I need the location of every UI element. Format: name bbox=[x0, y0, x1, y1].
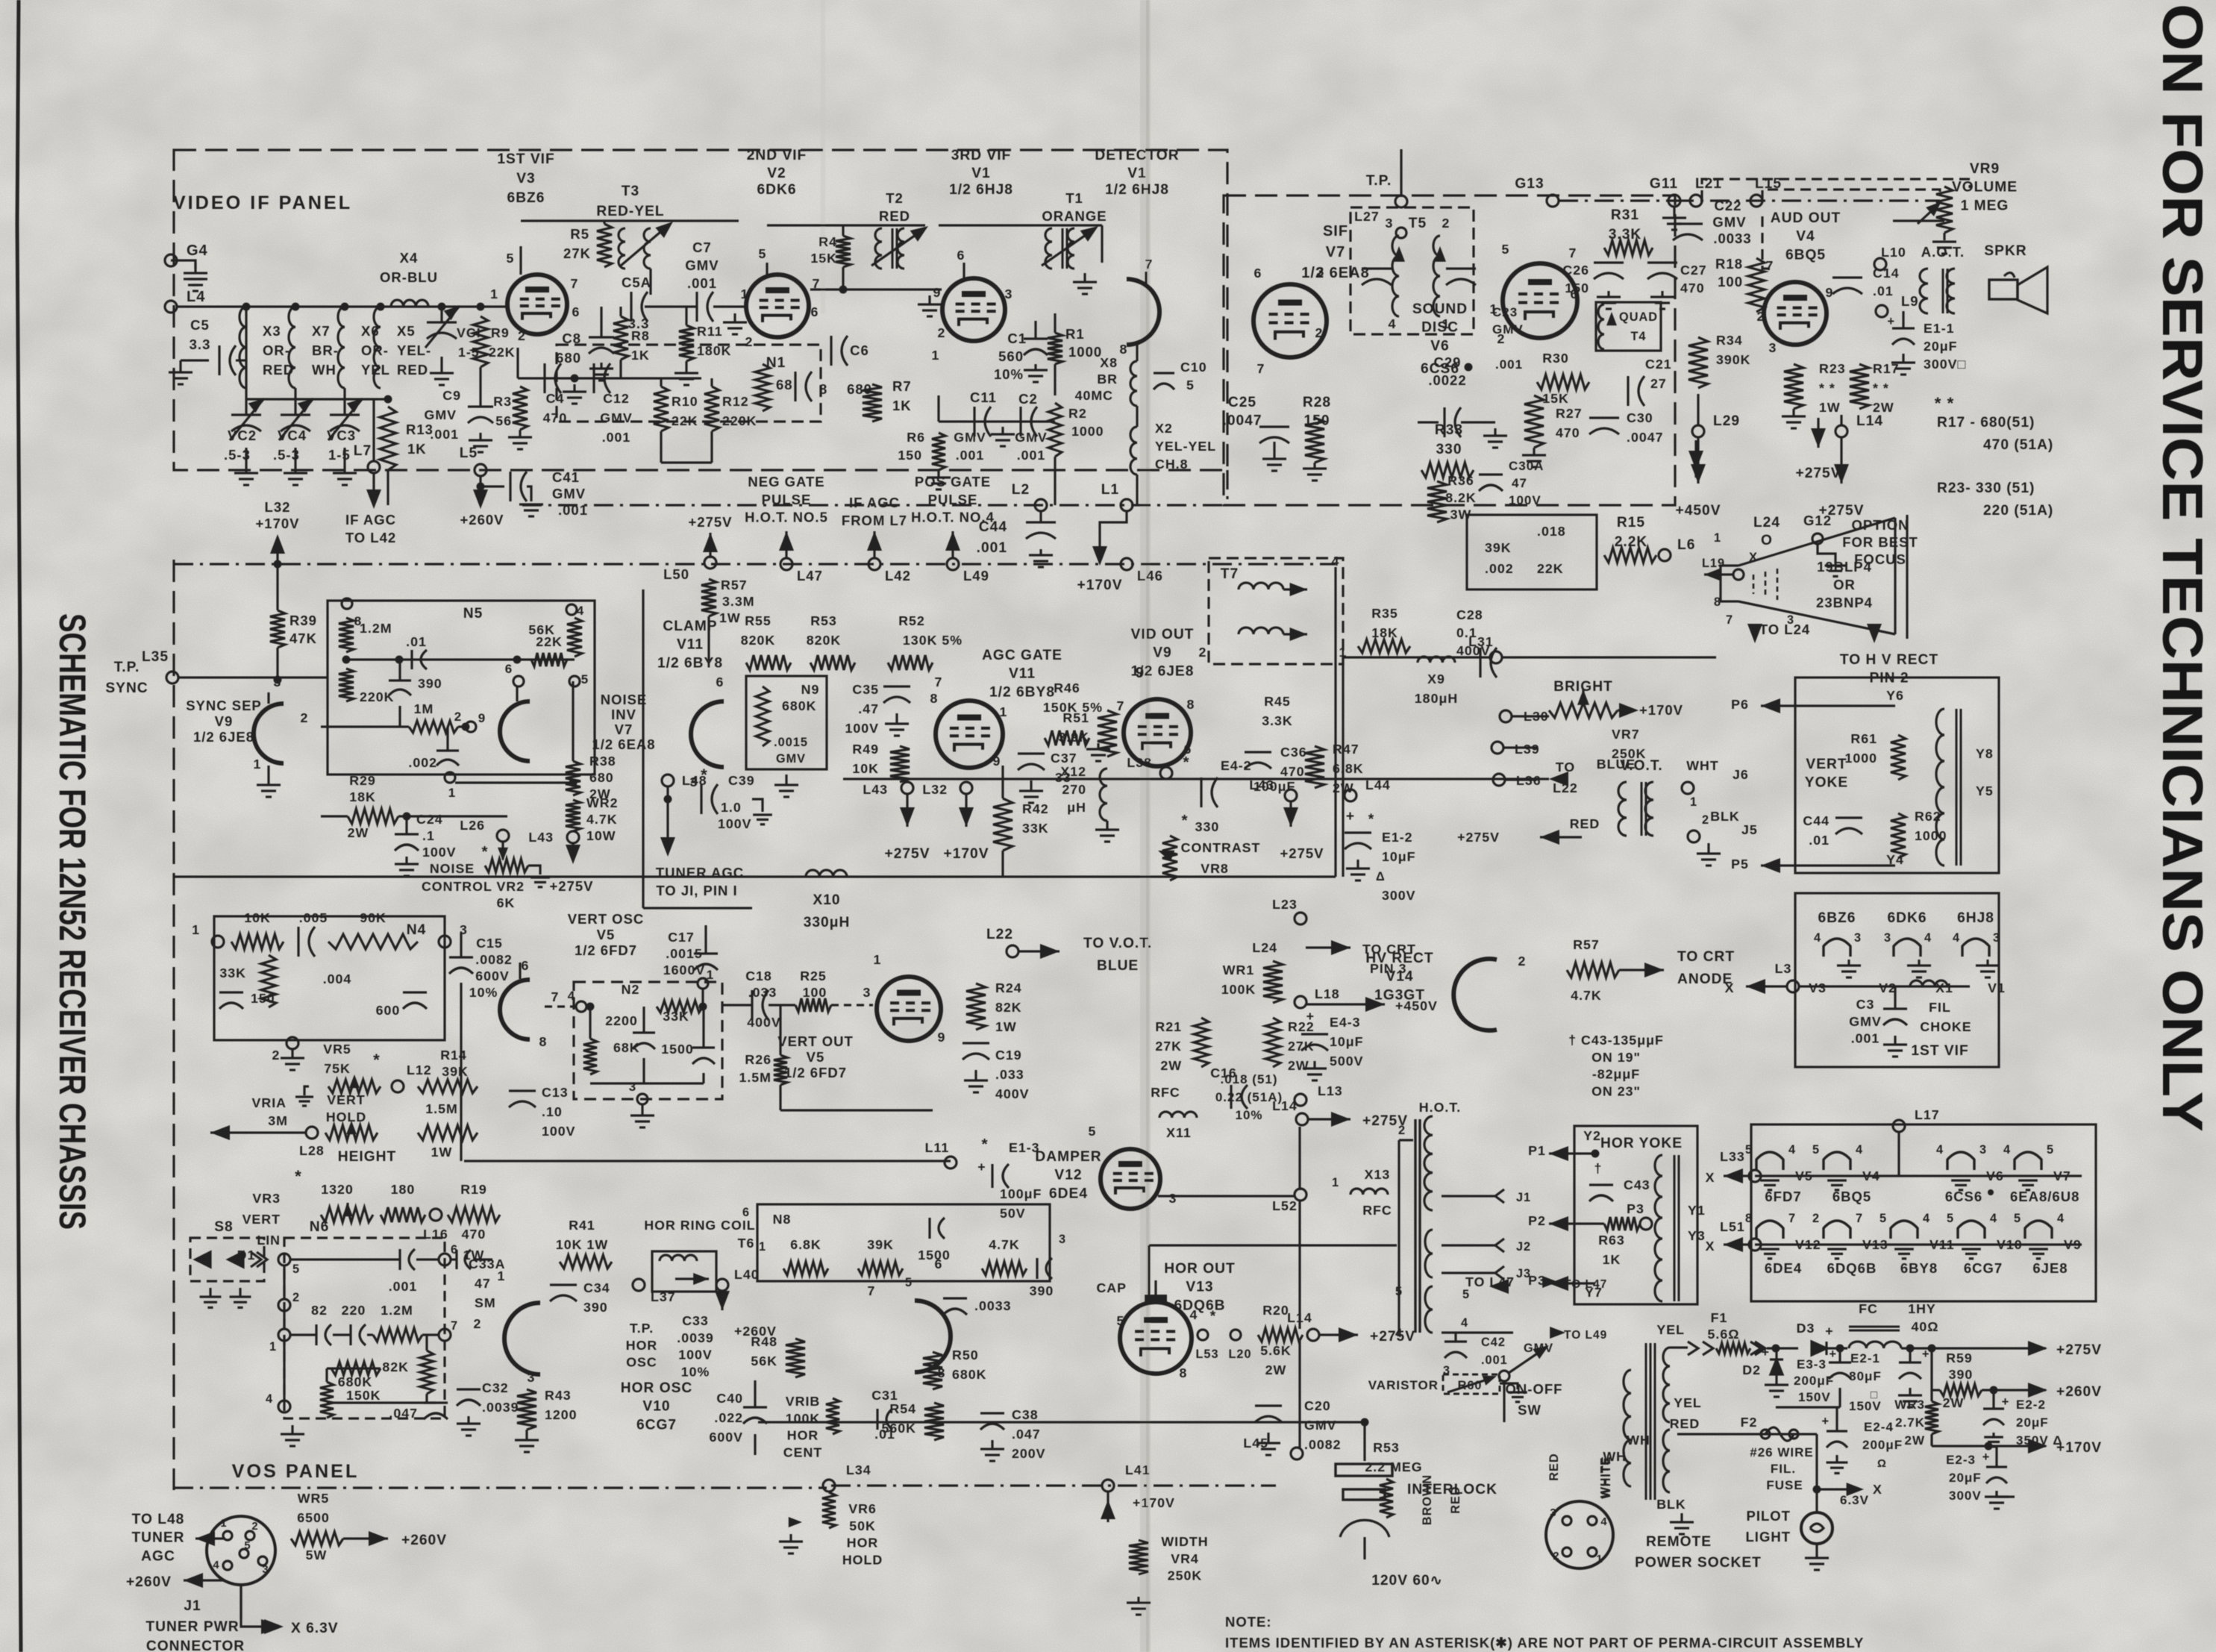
svg-text:TO L48: TO L48 bbox=[132, 1512, 185, 1527]
svg-text:500V: 500V bbox=[1330, 1054, 1364, 1069]
svg-text:2ND VIF: 2ND VIF bbox=[747, 148, 807, 163]
svg-text:3: 3 bbox=[1386, 216, 1394, 231]
svg-text:300V: 300V bbox=[1382, 888, 1416, 903]
svg-text:T7: T7 bbox=[1221, 566, 1239, 582]
svg-text:T2: T2 bbox=[886, 190, 904, 206]
svg-text:10μF: 10μF bbox=[1382, 849, 1416, 864]
svg-text:C43: C43 bbox=[1624, 1177, 1650, 1192]
svg-text:BR: BR bbox=[1097, 372, 1118, 387]
svg-text:2: 2 bbox=[251, 1521, 258, 1533]
svg-text:†: † bbox=[1594, 1161, 1603, 1176]
svg-text:YEL: YEL bbox=[1674, 1395, 1702, 1410]
svg-text:L38: L38 bbox=[1127, 755, 1152, 770]
svg-text:C24: C24 bbox=[416, 812, 443, 827]
svg-text:C28: C28 bbox=[1456, 607, 1483, 622]
svg-text:6.8K: 6.8K bbox=[790, 1237, 821, 1252]
svg-text:Δ: Δ bbox=[1376, 870, 1386, 883]
svg-text:.47: .47 bbox=[858, 701, 879, 716]
svg-text:2: 2 bbox=[1315, 325, 1324, 340]
svg-text:390: 390 bbox=[418, 676, 442, 691]
svg-text:E1-2: E1-2 bbox=[1382, 830, 1413, 845]
svg-text:8: 8 bbox=[1120, 342, 1128, 357]
svg-text:2: 2 bbox=[1702, 813, 1709, 827]
svg-text:V4: V4 bbox=[1796, 229, 1815, 245]
svg-text:R7: R7 bbox=[892, 378, 912, 394]
svg-text:4: 4 bbox=[1953, 931, 1960, 945]
svg-text:HOR OUT: HOR OUT bbox=[1164, 1261, 1235, 1277]
svg-text:C39: C39 bbox=[728, 773, 755, 788]
svg-text:3: 3 bbox=[274, 675, 282, 689]
svg-text:.0082: .0082 bbox=[475, 952, 513, 967]
svg-text:L18: L18 bbox=[1315, 986, 1340, 1001]
svg-text:R55: R55 bbox=[745, 613, 771, 628]
svg-text:+: + bbox=[1346, 809, 1355, 825]
svg-text:470: 470 bbox=[462, 1227, 486, 1242]
svg-text:X6: X6 bbox=[361, 323, 380, 339]
svg-text:100V: 100V bbox=[845, 721, 879, 736]
svg-text:1/2 6BY8: 1/2 6BY8 bbox=[989, 684, 1055, 700]
svg-text:R43: R43 bbox=[545, 1388, 572, 1403]
svg-text:6: 6 bbox=[1254, 266, 1262, 281]
svg-text:6BZ6: 6BZ6 bbox=[1818, 910, 1856, 926]
svg-text:ITEMS IDENTIFIED BY AN ASTERIS: ITEMS IDENTIFIED BY AN ASTERISK(✱) ARE N… bbox=[1225, 1635, 1864, 1651]
svg-text:C11: C11 bbox=[970, 389, 997, 405]
svg-text:15K: 15K bbox=[810, 251, 837, 266]
svg-text:470: 470 bbox=[1556, 425, 1580, 440]
svg-text:300V□: 300V□ bbox=[1924, 357, 1966, 372]
svg-text:C25: C25 bbox=[1228, 395, 1256, 410]
svg-text:L16: L16 bbox=[423, 1227, 448, 1242]
svg-text:V12: V12 bbox=[1054, 1168, 1082, 1183]
svg-text:.01: .01 bbox=[406, 634, 427, 649]
svg-text:1000: 1000 bbox=[1068, 344, 1102, 360]
svg-text:3RD VIF: 3RD VIF bbox=[951, 148, 1012, 163]
svg-text:5: 5 bbox=[1812, 1143, 1820, 1157]
svg-text:R51: R51 bbox=[1062, 710, 1089, 725]
svg-text:4: 4 bbox=[1190, 1307, 1198, 1322]
svg-text:.01: .01 bbox=[1873, 284, 1894, 298]
svg-text:6.8K: 6.8K bbox=[1333, 761, 1364, 776]
svg-text:1K: 1K bbox=[631, 348, 650, 363]
svg-text:VOS PANEL: VOS PANEL bbox=[232, 1461, 360, 1482]
svg-text:1/2 6HJ8: 1/2 6HJ8 bbox=[949, 182, 1013, 198]
svg-text:VC2: VC2 bbox=[228, 428, 257, 443]
svg-text:SW: SW bbox=[1518, 1402, 1542, 1418]
svg-text:6EA8/6U8: 6EA8/6U8 bbox=[2010, 1189, 2079, 1204]
svg-text:R52: R52 bbox=[898, 613, 925, 628]
svg-text:C1: C1 bbox=[1007, 331, 1027, 346]
svg-text:H.O.T.: H.O.T. bbox=[1419, 1100, 1461, 1115]
svg-text:CAP: CAP bbox=[1096, 1280, 1127, 1295]
svg-text:8: 8 bbox=[539, 1034, 548, 1049]
svg-text:.018: .018 bbox=[1537, 524, 1566, 539]
svg-text:2W: 2W bbox=[1265, 1362, 1287, 1377]
svg-text:C37: C37 bbox=[1051, 751, 1077, 766]
svg-text:8: 8 bbox=[1745, 1212, 1753, 1225]
svg-text:39K: 39K bbox=[1485, 540, 1512, 555]
svg-text:BLK: BLK bbox=[1710, 809, 1740, 824]
svg-text:R63: R63 bbox=[1598, 1233, 1625, 1248]
svg-text:L20: L20 bbox=[1228, 1348, 1251, 1361]
svg-text:R5: R5 bbox=[570, 226, 589, 242]
svg-text:150: 150 bbox=[251, 991, 275, 1006]
svg-text:.0039: .0039 bbox=[677, 1330, 714, 1345]
svg-text:1: 1 bbox=[932, 348, 940, 363]
svg-text:20μF: 20μF bbox=[2016, 1415, 2049, 1430]
svg-text:R42: R42 bbox=[1022, 801, 1049, 816]
svg-text:WH: WH bbox=[1627, 1433, 1650, 1448]
svg-text:+275V: +275V bbox=[1280, 845, 1324, 861]
svg-text:L30: L30 bbox=[1524, 709, 1549, 724]
svg-text:5: 5 bbox=[759, 246, 767, 261]
svg-text:5: 5 bbox=[2047, 1143, 2054, 1157]
svg-text:R31: R31 bbox=[1611, 207, 1639, 223]
svg-text:+170V: +170V bbox=[943, 846, 989, 862]
svg-text:SIF: SIF bbox=[1323, 223, 1348, 240]
svg-text:WHT: WHT bbox=[1686, 758, 1719, 773]
svg-text:1: 1 bbox=[254, 757, 262, 772]
svg-text:FC: FC bbox=[1859, 1301, 1878, 1316]
svg-text:LIGHT: LIGHT bbox=[1746, 1529, 1791, 1545]
svg-text:X7: X7 bbox=[312, 323, 331, 339]
svg-text:RED: RED bbox=[879, 208, 910, 224]
svg-text:7: 7 bbox=[1726, 613, 1733, 627]
svg-text:F2: F2 bbox=[1741, 1415, 1758, 1430]
svg-text:.0039: .0039 bbox=[482, 1400, 519, 1415]
svg-text:V10: V10 bbox=[1997, 1237, 2023, 1252]
svg-text:5: 5 bbox=[1745, 1143, 1753, 1157]
svg-text:V13: V13 bbox=[1186, 1280, 1213, 1295]
svg-text:TO V.O.T.: TO V.O.T. bbox=[1083, 936, 1152, 951]
svg-text:82: 82 bbox=[311, 1303, 328, 1318]
svg-text:+275V: +275V bbox=[549, 878, 593, 894]
svg-text:6: 6 bbox=[522, 958, 530, 973]
svg-text:C19: C19 bbox=[995, 1048, 1022, 1063]
svg-text:.001: .001 bbox=[602, 430, 631, 445]
svg-text:L53: L53 bbox=[1195, 1348, 1218, 1361]
svg-text:33K: 33K bbox=[1022, 821, 1049, 836]
svg-text:N5: N5 bbox=[463, 606, 483, 622]
svg-text:330: 330 bbox=[1436, 442, 1462, 457]
svg-text:1ST VIF: 1ST VIF bbox=[497, 151, 554, 167]
svg-text:IF AGC: IF AGC bbox=[345, 512, 396, 528]
svg-text:.001: .001 bbox=[1851, 1031, 1880, 1046]
svg-text:4: 4 bbox=[266, 1392, 273, 1406]
svg-text:100K: 100K bbox=[786, 1411, 821, 1426]
svg-text:5: 5 bbox=[1395, 1285, 1403, 1298]
svg-text:R25: R25 bbox=[800, 969, 827, 983]
svg-text:C33: C33 bbox=[682, 1313, 709, 1328]
svg-text:E2-3: E2-3 bbox=[1946, 1453, 1976, 1467]
svg-text:TUNER AGC: TUNER AGC bbox=[656, 865, 744, 880]
svg-text:2: 2 bbox=[938, 325, 946, 340]
svg-text:6JE8: 6JE8 bbox=[2032, 1260, 2068, 1276]
svg-text:9: 9 bbox=[478, 711, 486, 725]
svg-text:HOR YOKE: HOR YOKE bbox=[1600, 1136, 1683, 1151]
svg-text:100V: 100V bbox=[718, 816, 752, 831]
svg-text:5: 5 bbox=[244, 1540, 251, 1552]
svg-text:L24: L24 bbox=[1753, 515, 1780, 531]
svg-text:VERT OSC: VERT OSC bbox=[568, 911, 645, 927]
svg-text:.5-3: .5-3 bbox=[224, 447, 251, 463]
svg-text:6CS6: 6CS6 bbox=[1945, 1189, 1982, 1204]
svg-text:L19: L19 bbox=[1702, 557, 1725, 570]
svg-text:220: 220 bbox=[342, 1303, 366, 1318]
svg-text:TO: TO bbox=[1556, 760, 1575, 775]
svg-text:C2: C2 bbox=[1018, 391, 1038, 407]
svg-text:1: 1 bbox=[220, 1518, 227, 1530]
svg-text:7: 7 bbox=[1257, 361, 1265, 376]
svg-text:.001: .001 bbox=[430, 427, 459, 442]
svg-text:.001: .001 bbox=[956, 448, 985, 463]
svg-text:200μF: 200μF bbox=[1794, 1374, 1834, 1388]
svg-text:330: 330 bbox=[1195, 819, 1220, 834]
svg-text:1: 1 bbox=[759, 1240, 766, 1254]
svg-text:V9: V9 bbox=[1153, 645, 1171, 661]
svg-text:ON 23": ON 23" bbox=[1591, 1083, 1641, 1098]
svg-text:R27: R27 bbox=[1556, 406, 1583, 421]
svg-text:3: 3 bbox=[1979, 1143, 1987, 1157]
svg-text:POWER SOCKET: POWER SOCKET bbox=[1635, 1555, 1762, 1571]
svg-text:3.9K: 3.9K bbox=[1058, 730, 1089, 745]
svg-text:600V: 600V bbox=[709, 1430, 743, 1445]
svg-text:YEL-YEL: YEL-YEL bbox=[1155, 439, 1216, 454]
svg-text:NEG GATE: NEG GATE bbox=[748, 474, 824, 489]
svg-text:6FD7: 6FD7 bbox=[1765, 1189, 1801, 1204]
svg-text:RED-YEL: RED-YEL bbox=[596, 204, 664, 219]
svg-text:X9: X9 bbox=[1427, 672, 1445, 686]
svg-text:L14: L14 bbox=[1272, 1098, 1298, 1113]
svg-text:6: 6 bbox=[957, 248, 965, 263]
svg-text:L41: L41 bbox=[1125, 1462, 1151, 1477]
svg-text:C3: C3 bbox=[1856, 997, 1875, 1012]
svg-text:18K: 18K bbox=[349, 789, 376, 804]
svg-text:10W: 10W bbox=[586, 828, 616, 843]
svg-text:50V: 50V bbox=[1000, 1206, 1026, 1221]
svg-text:NOTE:: NOTE: bbox=[1225, 1614, 1272, 1630]
svg-text:VR5: VR5 bbox=[323, 1042, 351, 1057]
svg-text:3: 3 bbox=[1169, 1191, 1177, 1206]
svg-text:4: 4 bbox=[1936, 1143, 1944, 1157]
svg-text:.033: .033 bbox=[995, 1067, 1024, 1082]
svg-text:RED: RED bbox=[1449, 1486, 1462, 1513]
svg-text:R59: R59 bbox=[1946, 1351, 1973, 1365]
svg-text:C31: C31 bbox=[871, 1388, 898, 1403]
svg-text:TO L49: TO L49 bbox=[1564, 1329, 1607, 1342]
svg-text:2: 2 bbox=[1553, 1551, 1559, 1562]
svg-text:6: 6 bbox=[935, 1257, 943, 1271]
svg-text:7: 7 bbox=[868, 1283, 876, 1298]
svg-text:PIN 3: PIN 3 bbox=[1370, 961, 1406, 976]
svg-text:R12: R12 bbox=[722, 394, 749, 409]
svg-text:L32: L32 bbox=[922, 782, 948, 797]
svg-text:6: 6 bbox=[505, 662, 513, 676]
svg-text:470: 470 bbox=[1280, 764, 1305, 779]
svg-text:8: 8 bbox=[1180, 1365, 1188, 1380]
svg-text:2: 2 bbox=[301, 710, 309, 725]
svg-text:3.3: 3.3 bbox=[190, 337, 211, 352]
svg-text:+275V: +275V bbox=[1457, 830, 1500, 845]
svg-text:T5: T5 bbox=[1409, 216, 1427, 231]
svg-text:RED: RED bbox=[1570, 816, 1600, 831]
svg-text:27: 27 bbox=[1650, 376, 1667, 391]
svg-text:Y3: Y3 bbox=[1688, 1228, 1706, 1243]
svg-text:L47: L47 bbox=[797, 568, 823, 583]
svg-text:*: * bbox=[1181, 812, 1188, 829]
svg-text:4: 4 bbox=[1461, 1316, 1468, 1330]
svg-text:2200: 2200 bbox=[605, 1013, 638, 1028]
svg-text:1: 1 bbox=[448, 786, 456, 800]
svg-text:1-5: 1-5 bbox=[328, 447, 351, 463]
svg-text:L4: L4 bbox=[187, 289, 205, 305]
svg-text:33K: 33K bbox=[219, 966, 246, 980]
svg-text:4: 4 bbox=[1332, 554, 1340, 569]
svg-text:2W: 2W bbox=[1288, 1058, 1309, 1073]
svg-text:150V: 150V bbox=[1849, 1399, 1882, 1413]
svg-text:T6: T6 bbox=[738, 1236, 755, 1251]
svg-text:R62: R62 bbox=[1915, 809, 1941, 824]
svg-text:1: 1 bbox=[874, 952, 882, 967]
svg-text:1000: 1000 bbox=[1915, 828, 1947, 843]
svg-text:.001: .001 bbox=[687, 275, 717, 291]
svg-text:AGC GATE: AGC GATE bbox=[982, 648, 1062, 663]
svg-text:5: 5 bbox=[905, 1276, 913, 1289]
svg-text:100V: 100V bbox=[422, 845, 457, 860]
svg-text:R41: R41 bbox=[569, 1218, 595, 1233]
svg-text:C17: C17 bbox=[668, 930, 695, 945]
svg-text:75K: 75K bbox=[324, 1061, 351, 1076]
svg-text:680K: 680K bbox=[338, 1374, 373, 1389]
svg-text:V11: V11 bbox=[677, 637, 704, 653]
svg-text:N9: N9 bbox=[801, 682, 820, 697]
svg-text:T.P.: T.P. bbox=[114, 660, 140, 675]
svg-text:P2: P2 bbox=[1528, 1213, 1546, 1228]
svg-text:C42: C42 bbox=[1481, 1336, 1506, 1349]
svg-text:6DQ6B: 6DQ6B bbox=[1827, 1260, 1877, 1276]
svg-text:90K: 90K bbox=[360, 910, 386, 925]
svg-text:2W: 2W bbox=[348, 825, 369, 840]
svg-text:820K: 820K bbox=[741, 633, 776, 648]
svg-text:100V: 100V bbox=[678, 1348, 713, 1362]
svg-text:ON-OFF: ON-OFF bbox=[1506, 1381, 1563, 1397]
svg-text:V10: V10 bbox=[642, 1399, 670, 1415]
svg-text:E1-1: E1-1 bbox=[1924, 321, 1955, 336]
svg-text:+170V: +170V bbox=[1077, 578, 1122, 593]
svg-text:270: 270 bbox=[1062, 782, 1086, 797]
svg-text:+260V: +260V bbox=[401, 1533, 447, 1548]
svg-text:GMV: GMV bbox=[600, 410, 633, 425]
svg-text:RFC: RFC bbox=[1362, 1203, 1392, 1218]
svg-text:R30: R30 bbox=[1542, 351, 1569, 366]
svg-text:C40: C40 bbox=[716, 1391, 743, 1406]
svg-text:1000: 1000 bbox=[1071, 424, 1104, 439]
svg-text:.0047: .0047 bbox=[1627, 430, 1664, 445]
svg-text:+260V: +260V bbox=[460, 512, 504, 528]
svg-text:R24: R24 bbox=[995, 980, 1022, 995]
svg-text:J6: J6 bbox=[1733, 767, 1749, 782]
svg-text:T4: T4 bbox=[1630, 330, 1646, 343]
svg-text:.001: .001 bbox=[1495, 357, 1523, 372]
svg-text:10K: 10K bbox=[244, 910, 271, 925]
svg-text:Y5: Y5 bbox=[1976, 783, 1994, 798]
svg-text:1ST VIF: 1ST VIF bbox=[1911, 1043, 1968, 1059]
svg-text:1/2 6FD7: 1/2 6FD7 bbox=[784, 1065, 847, 1080]
svg-text:VR8: VR8 bbox=[1201, 861, 1229, 876]
svg-text:L23: L23 bbox=[1272, 897, 1298, 912]
svg-text:150: 150 bbox=[898, 448, 922, 463]
svg-text:6: 6 bbox=[1571, 287, 1579, 301]
svg-text:X11: X11 bbox=[1166, 1125, 1192, 1140]
svg-text:4: 4 bbox=[1788, 1143, 1796, 1157]
svg-text:Y6: Y6 bbox=[1886, 688, 1904, 703]
svg-text:1M: 1M bbox=[414, 701, 434, 716]
svg-text:R45: R45 bbox=[1264, 694, 1291, 709]
svg-text:+: + bbox=[1887, 315, 1895, 328]
svg-text:WH: WH bbox=[312, 362, 337, 378]
svg-text:YEL: YEL bbox=[1656, 1322, 1685, 1337]
svg-text:+275V: +275V bbox=[2056, 1342, 2102, 1358]
svg-text:6.3V: 6.3V bbox=[1840, 1493, 1869, 1507]
svg-text:7: 7 bbox=[551, 989, 560, 1004]
svg-text:*: * bbox=[981, 1136, 988, 1153]
svg-text:DAMPER: DAMPER bbox=[1035, 1149, 1101, 1165]
svg-text:E3-3: E3-3 bbox=[1797, 1357, 1827, 1371]
svg-text:39K: 39K bbox=[442, 1064, 469, 1079]
svg-text:C13: C13 bbox=[542, 1085, 569, 1100]
svg-text:R29: R29 bbox=[349, 773, 376, 788]
svg-text:100V: 100V bbox=[542, 1124, 576, 1139]
svg-text:L7: L7 bbox=[354, 443, 372, 459]
svg-text:ON FOR SERVICE TECHNICIANS ONL: ON FOR SERVICE TECHNICIANS ONLY bbox=[2150, 4, 2214, 1132]
svg-text:1500: 1500 bbox=[661, 1042, 694, 1057]
svg-text:C20: C20 bbox=[1304, 1398, 1331, 1413]
svg-text:VR3: VR3 bbox=[252, 1191, 281, 1206]
svg-text:100V: 100V bbox=[1509, 493, 1542, 507]
svg-text:GMV: GMV bbox=[954, 430, 986, 445]
svg-text:5.6K: 5.6K bbox=[1260, 1343, 1292, 1358]
svg-text:5.6Ω: 5.6Ω bbox=[1708, 1327, 1740, 1342]
svg-text:A.O.T.: A.O.T. bbox=[1921, 244, 1965, 260]
svg-text:.001: .001 bbox=[977, 540, 1007, 556]
svg-text:X8: X8 bbox=[1100, 355, 1118, 370]
svg-text:680K: 680K bbox=[952, 1367, 987, 1382]
svg-text:1/2 6HJ8: 1/2 6HJ8 bbox=[1105, 182, 1169, 198]
svg-text:40MC: 40MC bbox=[1075, 388, 1113, 403]
svg-text:27K: 27K bbox=[563, 245, 591, 261]
svg-text:680: 680 bbox=[589, 770, 614, 785]
svg-text:X: X bbox=[1706, 1239, 1715, 1254]
svg-text:+: + bbox=[1922, 1348, 1930, 1361]
svg-text:OPTION: OPTION bbox=[1852, 517, 1909, 533]
svg-text:Y8: Y8 bbox=[1976, 746, 1994, 761]
svg-text:P6: P6 bbox=[1731, 697, 1749, 712]
svg-text:.047: .047 bbox=[389, 1406, 418, 1421]
svg-text:L26: L26 bbox=[460, 818, 485, 833]
svg-text:OR-: OR- bbox=[361, 342, 389, 358]
svg-text:6BQ5: 6BQ5 bbox=[1785, 247, 1826, 263]
svg-text:2: 2 bbox=[474, 1316, 482, 1331]
svg-text:OSC: OSC bbox=[626, 1355, 657, 1370]
svg-text:V6: V6 bbox=[1430, 338, 1449, 354]
svg-text:+: + bbox=[1821, 1415, 1830, 1428]
svg-text:INV: INV bbox=[611, 707, 636, 722]
svg-text:4.7K: 4.7K bbox=[989, 1237, 1020, 1252]
svg-text:390: 390 bbox=[1949, 1367, 1974, 1382]
svg-text:6K: 6K bbox=[497, 895, 516, 910]
svg-text:R57: R57 bbox=[1573, 937, 1600, 952]
svg-text:ON 19": ON 19" bbox=[1591, 1050, 1641, 1065]
svg-text:C5: C5 bbox=[190, 317, 210, 333]
